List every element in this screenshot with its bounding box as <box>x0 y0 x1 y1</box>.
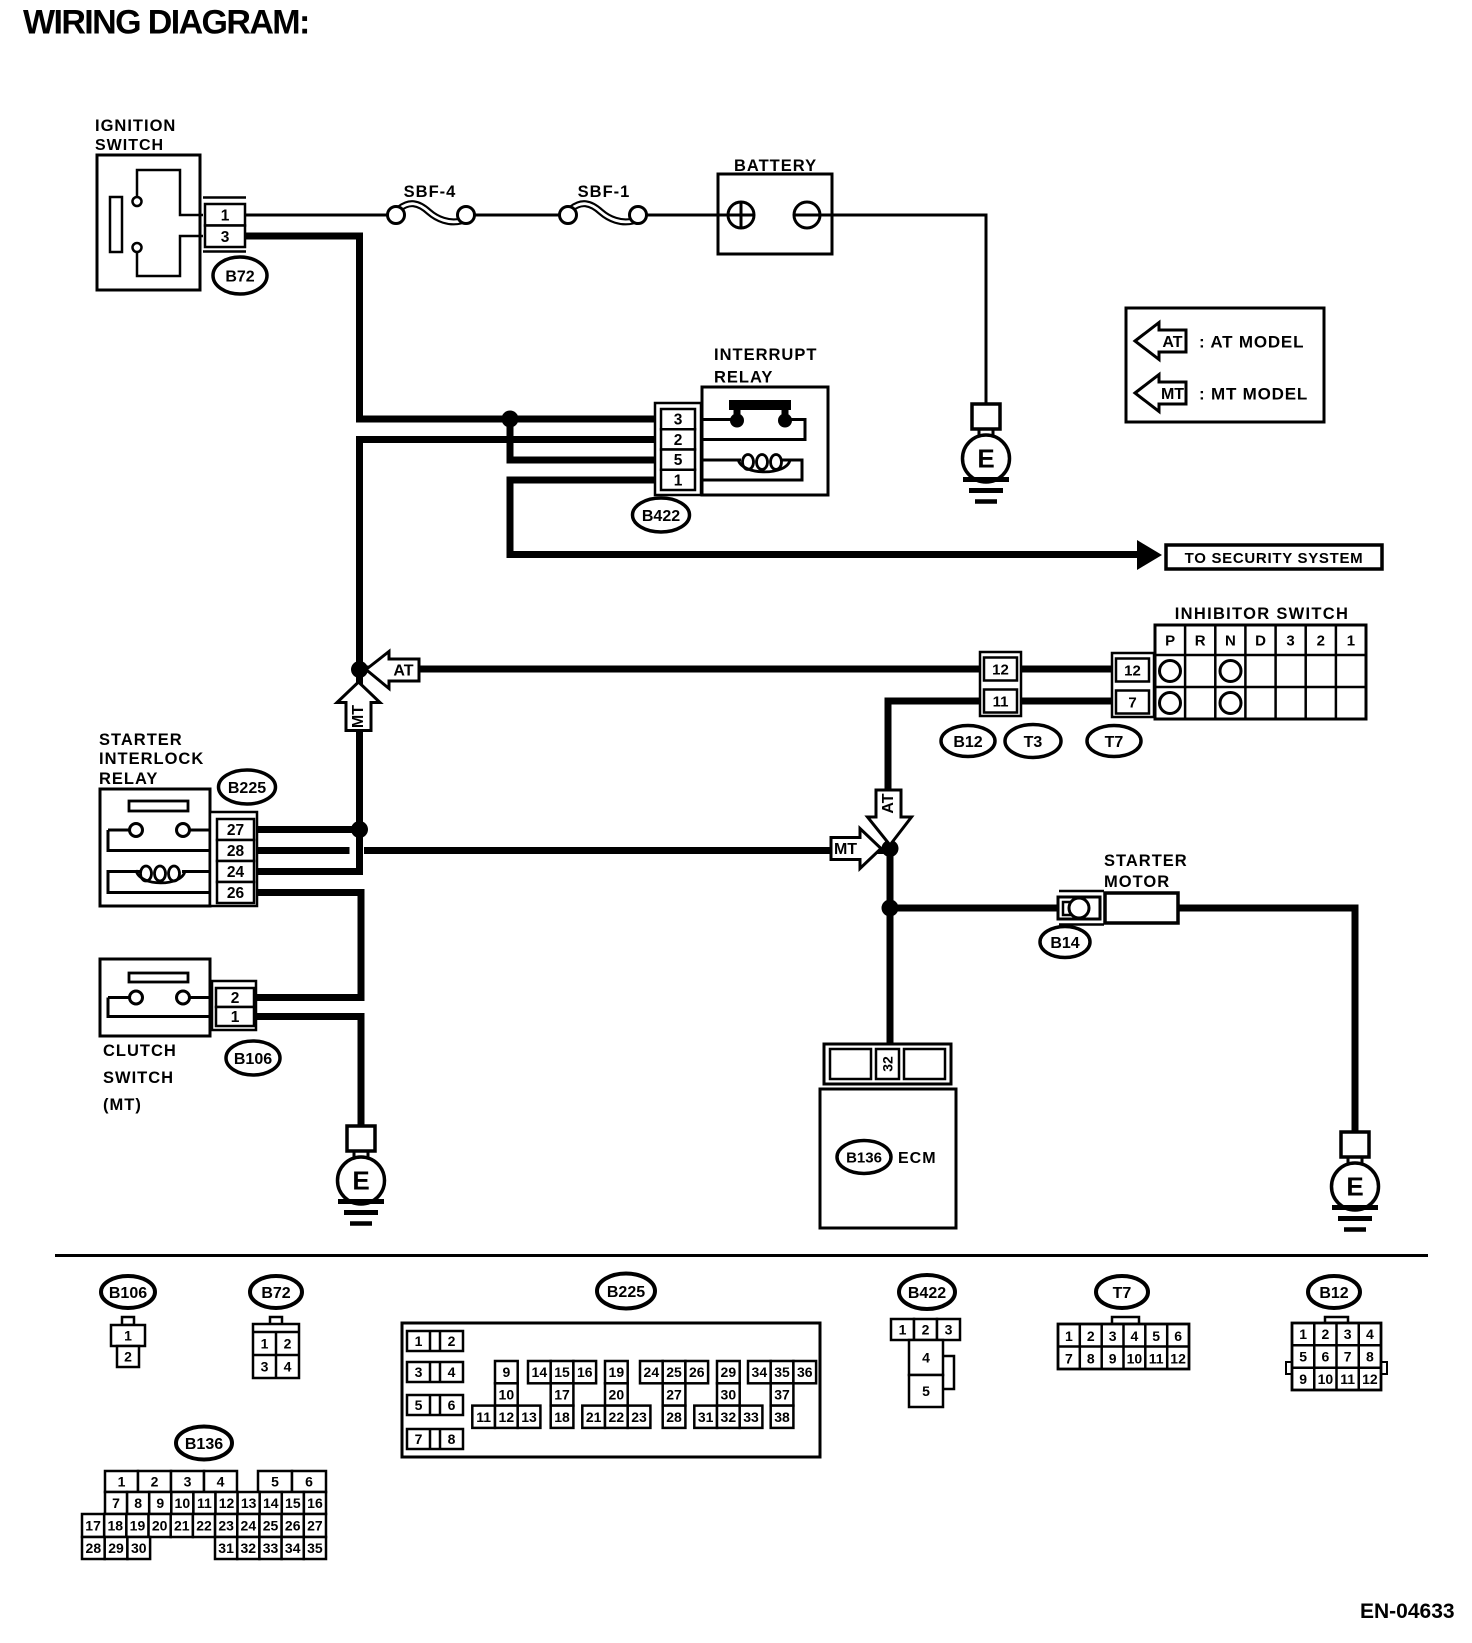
svg-text:26: 26 <box>689 1364 705 1380</box>
svg-text:6: 6 <box>1322 1349 1330 1365</box>
wire: AT branch to inhibitor connector B12 pin12 <box>359 666 982 673</box>
svg-text:MT: MT <box>350 705 367 728</box>
starter motor label <box>1104 852 1188 891</box>
svg-text:32: 32 <box>721 1409 737 1425</box>
pinout label oval B106 <box>101 1276 155 1308</box>
svg-text:TO SECURITY SYSTEM: TO SECURITY SYSTEM <box>1185 550 1364 567</box>
pinout connector B136 <box>82 1471 326 1559</box>
svg-text:28: 28 <box>666 1409 682 1425</box>
pinout label oval B72 <box>250 1276 302 1308</box>
svg-text:8: 8 <box>1366 1349 1374 1365</box>
svg-text:19: 19 <box>130 1518 146 1534</box>
connector B225 pins 27/28/24/26 <box>210 812 257 906</box>
connector label oval B72 <box>213 257 267 294</box>
svg-text:27: 27 <box>227 822 244 839</box>
svg-text:B225: B225 <box>607 1284 645 1301</box>
wire: interlock pin28 to MT arrow (right of bus) <box>364 847 888 854</box>
svg-text:15: 15 <box>554 1364 570 1380</box>
wire: interrupt relay pin1 to security system <box>510 480 1138 555</box>
svg-text:R: R <box>1195 633 1206 650</box>
svg-text:1: 1 <box>899 1322 907 1338</box>
svg-text:B106: B106 <box>234 1051 272 1068</box>
svg-text:18: 18 <box>554 1409 570 1425</box>
connector label oval B14 <box>1040 927 1090 958</box>
svg-text:5: 5 <box>1152 1328 1160 1344</box>
svg-text:1: 1 <box>674 473 683 490</box>
svg-text:2: 2 <box>674 432 683 449</box>
connector label oval B106 <box>226 1041 280 1075</box>
svg-text:8: 8 <box>1087 1351 1095 1367</box>
inhibitor switch contacts P <box>1160 661 1181 714</box>
wire: AT/MT junction down through starter motor junction to ECM pin32 <box>887 845 894 1052</box>
svg-text:AT: AT <box>880 793 897 813</box>
svg-text:37: 37 <box>774 1387 790 1403</box>
wire: B12 pin12 to T7 pin12 <box>1019 666 1114 673</box>
svg-text:3: 3 <box>674 412 683 429</box>
svg-text:24: 24 <box>644 1364 660 1380</box>
pinout label oval B225 <box>597 1274 655 1309</box>
svg-text:1: 1 <box>221 207 230 224</box>
ignition switch <box>97 155 203 290</box>
svg-text:N: N <box>1225 633 1236 650</box>
svg-text:10: 10 <box>499 1387 515 1403</box>
svg-text:MOTOR: MOTOR <box>1104 873 1170 891</box>
svg-text:16: 16 <box>307 1495 323 1511</box>
wire: interrupt relay pin2 down main bus to interlock pin24 <box>220 440 670 872</box>
svg-text:4: 4 <box>284 1359 292 1375</box>
svg-text:P: P <box>1165 633 1175 650</box>
svg-text:INTERRUPT: INTERRUPT <box>714 346 817 364</box>
svg-text:15: 15 <box>285 1495 301 1511</box>
wire: battery to ground E <box>794 215 986 404</box>
svg-text:33: 33 <box>263 1540 279 1556</box>
svg-text:1: 1 <box>261 1336 269 1352</box>
svg-text:31: 31 <box>698 1409 714 1425</box>
svg-text:2: 2 <box>284 1336 292 1352</box>
svg-text:29: 29 <box>108 1540 124 1556</box>
svg-text:(MT): (MT) <box>103 1096 142 1114</box>
svg-text:7: 7 <box>1128 694 1136 711</box>
svg-text:3: 3 <box>261 1359 269 1375</box>
svg-text:1: 1 <box>1347 633 1355 650</box>
pinout label oval B422 <box>899 1275 955 1309</box>
connector label oval B225 (relay) <box>219 770 276 804</box>
clutch switch label <box>103 1042 177 1114</box>
svg-text:RELAY: RELAY <box>714 369 773 387</box>
svg-text:11: 11 <box>1340 1371 1355 1387</box>
MT flag arrow at left junction <box>337 682 380 731</box>
svg-text:B72: B72 <box>261 1285 290 1302</box>
svg-text:10: 10 <box>1318 1371 1334 1387</box>
svg-text:2: 2 <box>1317 633 1325 650</box>
fuse SBF-4 <box>388 183 475 224</box>
wire: starter motor to ground E <box>1176 908 1355 1132</box>
svg-text:25: 25 <box>263 1518 279 1534</box>
svg-text:7: 7 <box>1065 1351 1073 1367</box>
svg-text:3: 3 <box>945 1322 953 1338</box>
AT flag arrow at left junction <box>366 652 419 689</box>
connector label oval T7 <box>1087 726 1141 757</box>
connector label oval B136 (ECM) <box>837 1141 891 1174</box>
svg-text:9: 9 <box>1109 1351 1117 1367</box>
svg-text:2: 2 <box>151 1474 159 1490</box>
svg-text:6: 6 <box>448 1397 456 1413</box>
svg-text:27: 27 <box>666 1387 682 1403</box>
svg-text:11: 11 <box>993 693 1009 710</box>
to security system box <box>1166 545 1382 569</box>
svg-text:32: 32 <box>880 1056 896 1072</box>
svg-text:MT: MT <box>1161 386 1184 403</box>
wire: B12 pin11 to T7 pin7 <box>1019 698 1114 705</box>
svg-text:B225: B225 <box>228 780 266 797</box>
junction node: interlock pin27/bus <box>351 821 368 838</box>
svg-text:29: 29 <box>721 1364 737 1380</box>
svg-text:IGNITION: IGNITION <box>95 117 176 135</box>
ground E (clutch circuit) <box>338 1126 385 1224</box>
svg-text:11: 11 <box>197 1495 212 1511</box>
wire: SBF-1 to battery <box>646 214 754 217</box>
svg-text:23: 23 <box>631 1409 647 1425</box>
svg-text:3: 3 <box>184 1474 192 1490</box>
junction node: starter motor branch <box>882 900 899 917</box>
svg-text:3: 3 <box>1286 633 1294 650</box>
ECM box <box>820 1089 956 1228</box>
svg-text:3: 3 <box>1109 1328 1117 1344</box>
separator line <box>55 1254 1428 1257</box>
svg-text:13: 13 <box>241 1495 257 1511</box>
starter interlock relay label <box>99 731 204 788</box>
svg-text:3: 3 <box>1344 1326 1352 1342</box>
svg-text:SWITCH: SWITCH <box>95 137 164 154</box>
svg-text:AT: AT <box>1162 334 1182 351</box>
svg-text:17: 17 <box>554 1387 570 1403</box>
svg-text:27: 27 <box>307 1518 323 1534</box>
svg-text:34: 34 <box>752 1364 768 1380</box>
svg-text:B12: B12 <box>1319 1285 1348 1302</box>
AT flag arrow at right junction <box>868 790 912 845</box>
pinout label oval B136 <box>176 1427 232 1460</box>
svg-text:17: 17 <box>85 1518 101 1534</box>
svg-text:BATTERY: BATTERY <box>734 157 817 175</box>
svg-text:2: 2 <box>448 1333 456 1349</box>
svg-text:21: 21 <box>586 1409 602 1425</box>
svg-text:12: 12 <box>219 1495 235 1511</box>
svg-text:INTERLOCK: INTERLOCK <box>99 750 204 768</box>
pinout connector B225 <box>402 1323 820 1457</box>
svg-text:E: E <box>1346 1172 1363 1202</box>
svg-text:6: 6 <box>305 1474 313 1490</box>
svg-text:B14: B14 <box>1050 935 1079 952</box>
svg-text:12: 12 <box>499 1409 515 1425</box>
svg-text:19: 19 <box>609 1364 625 1380</box>
svg-text:9: 9 <box>1299 1371 1307 1387</box>
interrupt relay label <box>714 346 817 387</box>
svg-text:SBF-1: SBF-1 <box>578 183 631 201</box>
svg-text:3: 3 <box>221 229 230 246</box>
svg-text:WIRING DIAGRAM:: WIRING DIAGRAM: <box>23 4 309 42</box>
wire: interlock pin27 to junction <box>220 826 360 833</box>
svg-text:9: 9 <box>156 1495 164 1511</box>
connector label oval T3 <box>1005 725 1061 758</box>
connector B422 pins 3/2/5/1 <box>655 403 701 495</box>
svg-text:B12: B12 <box>953 734 982 751</box>
svg-text:11: 11 <box>476 1409 491 1425</box>
svg-text:28: 28 <box>86 1540 102 1556</box>
pinout connector B72 <box>253 1317 299 1378</box>
svg-text:B136: B136 <box>846 1149 882 1166</box>
svg-text:12: 12 <box>1170 1351 1186 1367</box>
svg-text:E: E <box>977 444 994 474</box>
svg-text:STARTER: STARTER <box>99 731 183 749</box>
svg-text:35: 35 <box>774 1364 790 1380</box>
svg-text:: MT MODEL: : MT MODEL <box>1199 385 1308 404</box>
pinout connector B422 <box>891 1319 960 1407</box>
svg-text:B422: B422 <box>642 508 680 525</box>
svg-text:E: E <box>352 1166 369 1196</box>
svg-text:5: 5 <box>415 1397 423 1413</box>
svg-text:22: 22 <box>196 1518 212 1534</box>
svg-text:5: 5 <box>271 1474 279 1490</box>
svg-text:22: 22 <box>609 1409 625 1425</box>
svg-text:25: 25 <box>666 1364 682 1380</box>
svg-text:6: 6 <box>1174 1328 1182 1344</box>
svg-text:30: 30 <box>721 1387 737 1403</box>
svg-text:11: 11 <box>1149 1351 1164 1367</box>
svg-text:4: 4 <box>1366 1326 1374 1342</box>
svg-text:26: 26 <box>285 1518 301 1534</box>
wire: junction to starter motor <box>890 905 1062 912</box>
svg-text:7: 7 <box>415 1431 423 1447</box>
svg-text:23: 23 <box>218 1518 234 1534</box>
pinout connector T7 <box>1058 1317 1189 1369</box>
svg-text:1: 1 <box>118 1474 126 1490</box>
inhibitor switch grid <box>1155 625 1366 719</box>
svg-text:1: 1 <box>1299 1326 1307 1342</box>
svg-text:B136: B136 <box>185 1436 223 1453</box>
svg-text:31: 31 <box>218 1540 234 1556</box>
wire: SBF-4 to SBF-1 <box>472 214 562 217</box>
pinout connector B12 <box>1286 1317 1387 1390</box>
connector T7 pins 12/7 <box>1112 653 1154 717</box>
clutch switch <box>100 959 213 1036</box>
svg-text:10: 10 <box>175 1495 191 1511</box>
svg-text:2: 2 <box>231 990 240 1007</box>
svg-text:13: 13 <box>521 1409 537 1425</box>
interrupt relay <box>702 387 828 495</box>
battery <box>718 157 832 254</box>
wire: branch to interrupt relay pin5 <box>510 421 670 460</box>
svg-text:EN-04633: EN-04633 <box>1360 1600 1455 1623</box>
MT flag arrow at right junction <box>831 829 881 869</box>
arrowhead to security system <box>1137 540 1162 570</box>
svg-text:CLUTCH: CLUTCH <box>103 1042 177 1060</box>
legend box <box>1126 308 1324 422</box>
svg-text:T3: T3 <box>1024 734 1043 751</box>
svg-text:8: 8 <box>448 1431 456 1447</box>
svg-text:20: 20 <box>609 1387 625 1403</box>
svg-text:10: 10 <box>1127 1351 1143 1367</box>
svg-text:SWITCH: SWITCH <box>103 1069 174 1087</box>
junction node: AT/MT merge right <box>882 840 899 857</box>
svg-text:20: 20 <box>152 1518 168 1534</box>
wire: interlock pin28 to MT arrow (left of bus) <box>220 847 350 854</box>
legend MT arrow <box>1135 375 1186 412</box>
svg-text:MT: MT <box>834 841 857 858</box>
svg-text:4: 4 <box>1131 1328 1139 1344</box>
svg-text:14: 14 <box>532 1364 548 1380</box>
svg-text:24: 24 <box>227 864 245 881</box>
svg-text:16: 16 <box>577 1364 593 1380</box>
ECM connector strip with pin 32 <box>824 1044 951 1084</box>
connector label oval B12 <box>941 726 995 757</box>
svg-text:32: 32 <box>241 1540 257 1556</box>
svg-text:3: 3 <box>415 1364 423 1380</box>
svg-text:34: 34 <box>285 1540 301 1556</box>
ground E (battery) <box>963 404 1010 502</box>
svg-text:D: D <box>1255 633 1266 650</box>
svg-text:5: 5 <box>922 1383 930 1399</box>
connector B106 pins 2/1 <box>212 981 256 1030</box>
svg-text:1: 1 <box>231 1009 240 1026</box>
svg-text:B72: B72 <box>225 268 254 285</box>
svg-text:T7: T7 <box>1113 1285 1132 1302</box>
svg-text:SBF-4: SBF-4 <box>404 183 457 201</box>
svg-text:2: 2 <box>1087 1328 1095 1344</box>
ignition switch label <box>95 117 176 154</box>
svg-text:4: 4 <box>217 1474 225 1490</box>
svg-text:AT: AT <box>393 663 413 680</box>
svg-text:12: 12 <box>1124 662 1141 679</box>
svg-text:B422: B422 <box>908 1285 946 1302</box>
svg-text:30: 30 <box>131 1540 147 1556</box>
svg-text:5: 5 <box>674 452 683 469</box>
svg-text:26: 26 <box>227 885 245 902</box>
svg-text:INHIBITOR SWITCH: INHIBITOR SWITCH <box>1175 605 1350 623</box>
svg-text:T7: T7 <box>1105 734 1124 751</box>
wire: interlock pin26 down to clutch pin2 <box>220 893 361 998</box>
fuse SBF-1 <box>560 183 647 224</box>
svg-text:4: 4 <box>448 1364 456 1380</box>
wire: ignition pin1 to SBF-4 <box>245 214 390 217</box>
svg-text:18: 18 <box>107 1518 123 1534</box>
starter motor <box>1058 891 1178 925</box>
svg-text:2: 2 <box>1322 1326 1330 1342</box>
svg-text:12: 12 <box>992 661 1009 678</box>
junction node: interrupt relay feed <box>502 411 519 428</box>
wire: clutch pin1 down to ground E <box>220 1017 361 1127</box>
svg-text:B106: B106 <box>109 1285 147 1302</box>
svg-text:RELAY: RELAY <box>99 770 158 788</box>
svg-text:2: 2 <box>124 1349 132 1365</box>
legend AT arrow <box>1135 323 1186 360</box>
ground E (starter motor) <box>1332 1132 1379 1230</box>
connector B12 pins 12/11 <box>980 652 1021 716</box>
svg-text:8: 8 <box>134 1495 142 1511</box>
pinout label oval T7 <box>1096 1276 1148 1308</box>
starter interlock relay <box>100 789 213 906</box>
svg-text:STARTER: STARTER <box>1104 852 1188 870</box>
svg-text:36: 36 <box>797 1364 813 1380</box>
svg-text:7: 7 <box>1344 1349 1352 1365</box>
svg-text:14: 14 <box>263 1495 279 1511</box>
svg-text:1: 1 <box>124 1328 132 1344</box>
svg-text:4: 4 <box>922 1350 930 1366</box>
svg-text:5: 5 <box>1299 1349 1307 1365</box>
svg-text:2: 2 <box>922 1322 930 1338</box>
wire: ignition pin3 to interrupt relay pin3 (bus) <box>245 236 670 419</box>
svg-text:ECM: ECM <box>898 1150 937 1167</box>
pinout connector B106 <box>111 1317 145 1367</box>
connector B72 pins 1/3 <box>203 198 246 252</box>
svg-text:35: 35 <box>307 1540 323 1556</box>
svg-text:9: 9 <box>502 1364 510 1380</box>
svg-text:28: 28 <box>227 843 245 860</box>
svg-text:24: 24 <box>241 1518 257 1534</box>
wire: B12 pin11 left and down to AT arrow <box>888 701 982 800</box>
svg-text:12: 12 <box>1362 1371 1378 1387</box>
junction node: AT/MT split <box>351 661 368 678</box>
pinout label oval B12 <box>1308 1276 1360 1308</box>
inhibitor switch contacts N <box>1220 661 1241 714</box>
svg-text:33: 33 <box>743 1409 759 1425</box>
connector label oval B422 <box>633 498 690 532</box>
svg-text:21: 21 <box>174 1518 190 1534</box>
svg-text:7: 7 <box>112 1495 120 1511</box>
svg-text:1: 1 <box>415 1333 423 1349</box>
svg-text:38: 38 <box>774 1409 790 1425</box>
svg-text:: AT MODEL: : AT MODEL <box>1199 333 1304 352</box>
svg-text:1: 1 <box>1065 1328 1073 1344</box>
